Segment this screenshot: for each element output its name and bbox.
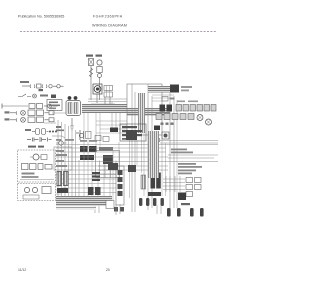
bottom pill 3 [190,208,194,217]
center vertical mesh wires [84,113,119,206]
water valve label [86,55,93,57]
left connector stack A [57,172,62,186]
right cluster link wires [152,95,174,101]
svg-text:WIRING DIAGRAM: WIRING DIAGRAM [92,24,127,28]
lower-left harness band [56,196,112,206]
right bottom relay dark [178,193,186,201]
left dark bar [57,188,68,193]
defrost heater block B [89,146,97,152]
aux relay boxes [95,136,109,142]
board-to-bottom bundle [130,100,178,208]
svg-text:FGHF2366PFA: FGHF2366PFA [93,15,123,19]
run capacitor symbol [76,130,91,140]
drain heater label [25,129,31,131]
defrost terminator [162,132,169,139]
row3 label [5,118,10,120]
ice crusher solenoid [93,84,102,94]
board lower connector dark [126,130,137,140]
bottom pill 4 [200,208,204,217]
condenser fan label [181,86,192,88]
center bottom pills row [139,198,164,206]
bottom pill 2 [177,208,181,217]
under-band rungs [96,113,127,150]
defrost heater block A [80,146,88,152]
overload protector [70,118,74,130]
dispenser label [96,55,103,57]
ice maker motor [30,154,47,160]
row1 connector pair [29,104,58,109]
left striped connector [92,172,100,181]
defrost thermostat block [80,155,94,160]
band end box [106,201,114,209]
label L/OE [181,203,190,205]
harness band top [82,104,127,113]
right connector row 2 [156,114,194,120]
center dark cluster [88,187,101,195]
board inner vertical harness [138,93,145,133]
ice maker heater blocks [22,164,53,170]
long bus lines lower center [56,145,218,193]
lower-left harness tail [56,207,96,211]
left vertical bundle [58,120,79,206]
ice maker lower wires [20,179,54,181]
dark bar under columns [148,192,161,196]
lamp label [40,95,48,97]
row2 label [5,111,10,113]
board connector block [120,124,146,141]
left connector stack B [64,172,69,186]
cut line [20,31,216,33]
row1 end stub [1,104,3,109]
main control board outline [127,84,162,135]
connector column A dark [151,173,156,189]
left junction box [54,147,72,170]
right bottom grid [163,176,185,192]
control box [47,100,62,111]
board verticals [132,84,174,213]
compressor winding 1 [68,103,72,114]
strip head block [108,163,118,170]
relay pair pin marks [161,123,174,125]
right bottom connector boxes [186,178,201,197]
ice maker dashed box [18,150,56,182]
door switch chain [22,84,64,88]
thermostat side text [103,155,113,164]
ice maker label [28,146,44,148]
tall connector strip [116,166,124,205]
wires dispenser down [97,94,110,104]
harness band top right [127,108,170,116]
right junction dark [154,126,160,131]
bottom-left small marks [114,207,124,212]
container motor 2 [32,187,37,192]
defrost thermostat row [27,137,52,142]
container bottom block [23,195,39,199]
condenser fan motor block [170,85,179,93]
fz light row wire [2,105,28,107]
svg-text:11/12: 11/12 [18,268,26,272]
chain outlet wires [88,99,127,104]
compressor winding 2 [74,103,78,114]
control box lead [44,113,66,123]
connector column B dark [156,173,161,189]
relay pair dark [160,105,173,112]
light switch [18,94,31,97]
riser wires right of chain [112,102,120,133]
right connector row 1 [176,105,216,112]
ice container dashed box [18,184,56,201]
right top harness band [148,86,170,93]
right fan circle 2 [206,119,212,125]
water valve coil [89,59,94,66]
compressor start relay terminals [68,96,72,100]
light lamp [33,94,37,98]
svg-text:20: 20 [106,268,110,272]
evap fan motor cluster [56,141,67,145]
ptc relay marks [56,126,64,131]
relay internals [98,161,116,178]
relay box outline [96,151,120,178]
heater zigzag [90,68,93,77]
heater labels upper [80,140,97,142]
auger motor circle [97,60,102,65]
container motor 1 [24,187,29,192]
door switch chain labels [20,81,29,83]
harness block pair top [128,165,136,172]
start device arrow [52,136,65,138]
wire motor down [99,78,101,101]
ice maker text row2 [22,176,39,178]
right vertical harness [148,131,159,178]
ice maker text row1 [22,173,35,175]
thermistor cluster [162,97,175,102]
connector column C light [141,175,146,189]
container wires right [56,186,62,194]
motor cap circle [98,74,102,78]
right label rows [171,149,202,175]
right fan circle 1 [197,115,203,121]
small connector [51,95,56,99]
defrost connector circles [149,138,160,143]
fan label specks [56,139,74,141]
heater labels [99,147,113,151]
bottom center stubs [95,205,99,213]
right long wires [160,141,218,159]
drain heater elements [32,129,57,135]
right row labels [177,101,198,103]
cond fan label 2 [181,90,189,92]
node junction dark [110,128,118,133]
wires to bottom edge [116,204,161,215]
motor terminal box [97,67,102,73]
row3 lamp [10,117,54,123]
container relay [42,187,51,194]
row2 lamp [10,110,54,116]
svg-text:Publication No. 5995536965: Publication No. 5995536965 [18,15,64,19]
label 1A [39,89,44,91]
bottom pill 1 [167,208,171,217]
run capacitor terminal [74,96,78,100]
wire valve down [90,66,92,101]
compressor shell [66,101,81,116]
dispenser switch bank [104,86,113,98]
